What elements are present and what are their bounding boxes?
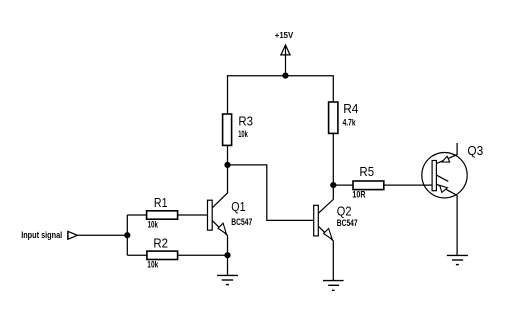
svg-text:+15V: +15V: [275, 30, 294, 40]
svg-text:10k: 10k: [147, 259, 159, 269]
svg-text:R5: R5: [359, 164, 374, 179]
svg-text:Q1: Q1: [231, 199, 245, 214]
svg-text:10k: 10k: [148, 220, 159, 230]
power symbol +15V: [280, 45, 291, 76]
resistor R5: [353, 181, 384, 190]
svg-text:10R: 10R: [352, 189, 365, 199]
ground (Q1): [217, 275, 238, 284]
resistor R2: [147, 251, 178, 259]
junction power rail: [283, 73, 288, 78]
wire R2 to Q1 emitter node: [178, 254, 228, 256]
junction Q1 emitter / R2: [225, 253, 230, 258]
svg-text:10k: 10k: [238, 129, 248, 139]
svg-text:R4: R4: [343, 101, 358, 116]
svg-text:Q2: Q2: [337, 203, 352, 218]
junction node R4 / Q2 collector / R5: [331, 183, 336, 188]
wire +15V rail: [228, 76, 334, 114]
svg-text:Input signal: Input signal: [21, 230, 62, 240]
svg-text:Q3: Q3: [467, 143, 483, 158]
svg-text:R3: R3: [238, 114, 253, 129]
svg-text:R2: R2: [153, 235, 168, 250]
wire input to junction: [77, 234, 127, 236]
input port symbol: [68, 231, 78, 240]
wire input node to R2: [127, 254, 147, 256]
junction input node: [125, 233, 130, 238]
wire input node to R1: [127, 214, 146, 216]
wire R3 bottom: [227, 145, 229, 165]
svg-text:R1: R1: [154, 195, 168, 210]
transistor Q1: [208, 165, 228, 255]
resistor R4: [329, 102, 338, 133]
svg-text:BC547: BC547: [337, 218, 358, 228]
wire R4 bottom: [332, 133, 334, 185]
wire input node vertical: [126, 215, 128, 255]
wire Q1 emitter to ground: [227, 255, 229, 275]
svg-text:BC547: BC547: [231, 217, 252, 227]
wire R4 node to R5: [333, 184, 353, 186]
transistor Q2: [314, 185, 334, 281]
transistor Q3: [422, 143, 467, 255]
wire R1 to Q1 base: [178, 214, 208, 216]
resistor R1: [147, 211, 178, 219]
wire node to Q2 base: [228, 165, 314, 221]
resistor R3: [223, 114, 232, 145]
svg-text:4.7k: 4.7k: [343, 117, 357, 127]
junction node R3 / Q1 collector: [225, 162, 230, 167]
ground (Q3): [447, 255, 468, 264]
ground (Q2): [323, 281, 344, 291]
wire R5 to Q3 base: [384, 184, 432, 186]
